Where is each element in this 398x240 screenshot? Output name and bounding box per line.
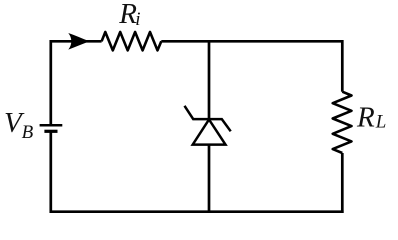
wire left lower (49, 131, 52, 213)
wire middle upper (208, 41, 211, 119)
wire middle lower (208, 145, 211, 212)
label RL (356, 102, 386, 134)
label Ri (118, 0, 140, 30)
wire left upper (49, 40, 52, 125)
current arrow (68, 33, 89, 50)
resistor Ri (102, 32, 162, 50)
label VB (4, 107, 34, 143)
svg-text:R: R (356, 102, 375, 134)
wire top (51, 40, 343, 43)
wire right lower (341, 153, 344, 213)
svg-text:L: L (375, 112, 387, 133)
resistor RL (333, 92, 352, 153)
wire bottom (50, 210, 344, 213)
zener diode (185, 106, 231, 145)
battery VB (40, 125, 63, 131)
wire right upper (341, 40, 344, 92)
svg-text:i: i (135, 9, 140, 30)
svg-text:B: B (22, 122, 34, 143)
